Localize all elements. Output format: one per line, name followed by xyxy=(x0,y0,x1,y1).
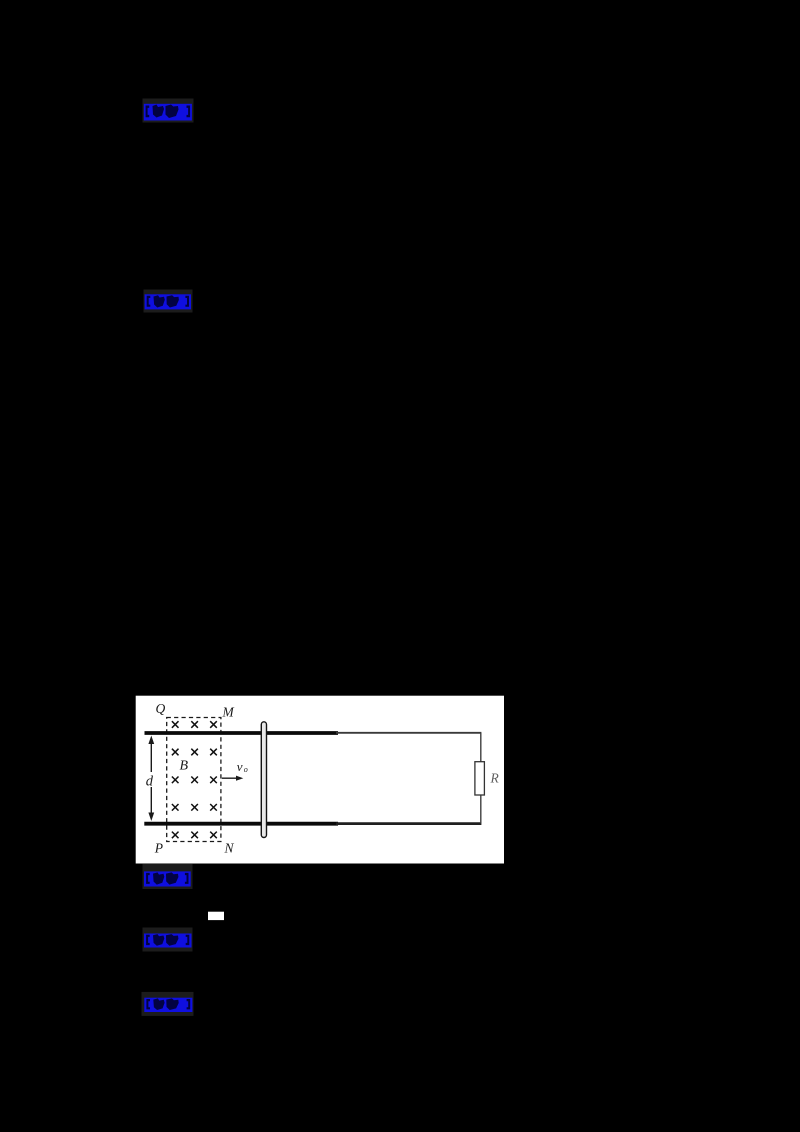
inline formula box (white) xyxy=(208,912,224,920)
label tag 3 (blue highlighted 【答案】) xyxy=(143,864,193,889)
svg-text:d: d xyxy=(146,774,154,790)
label tag 2 (blue highlighted 【答案】) xyxy=(144,290,193,313)
svg-text:P: P xyxy=(154,841,163,856)
label tag 5 (blue highlighted 【点睛】) xyxy=(142,992,194,1016)
label tag 1 (blue highlighted 【解析】) xyxy=(143,99,194,123)
B-field dashed boundary box xyxy=(167,718,221,842)
B-field into-page x markers xyxy=(172,721,217,838)
top rail wire (thick segment) xyxy=(145,731,339,735)
bottom rail wire (thin segment) xyxy=(336,822,481,825)
v0 velocity arrow xyxy=(222,777,239,779)
conductor bar on rails xyxy=(261,722,266,838)
svg-text:N: N xyxy=(224,841,235,856)
d dimension arrow (upper segment with up arrowhead) xyxy=(150,741,152,772)
resistor R body xyxy=(475,762,485,795)
diagram panel (white) xyxy=(136,696,504,864)
svg-text:B: B xyxy=(180,759,189,774)
top rail wire (thin segment) xyxy=(336,732,481,734)
d dimension arrow (lower segment with down arrowhead) xyxy=(150,787,152,816)
svg-text:R: R xyxy=(490,771,500,786)
right vertical wire to resistor xyxy=(480,733,482,824)
svg-text:M: M xyxy=(222,705,235,720)
svg-text:o: o xyxy=(244,765,248,774)
svg-text:v: v xyxy=(237,759,243,774)
label tag 4 (blue highlighted 【解析】) xyxy=(143,928,193,952)
bottom rail wire (thick segment) xyxy=(144,822,338,826)
svg-text:Q: Q xyxy=(156,701,166,716)
